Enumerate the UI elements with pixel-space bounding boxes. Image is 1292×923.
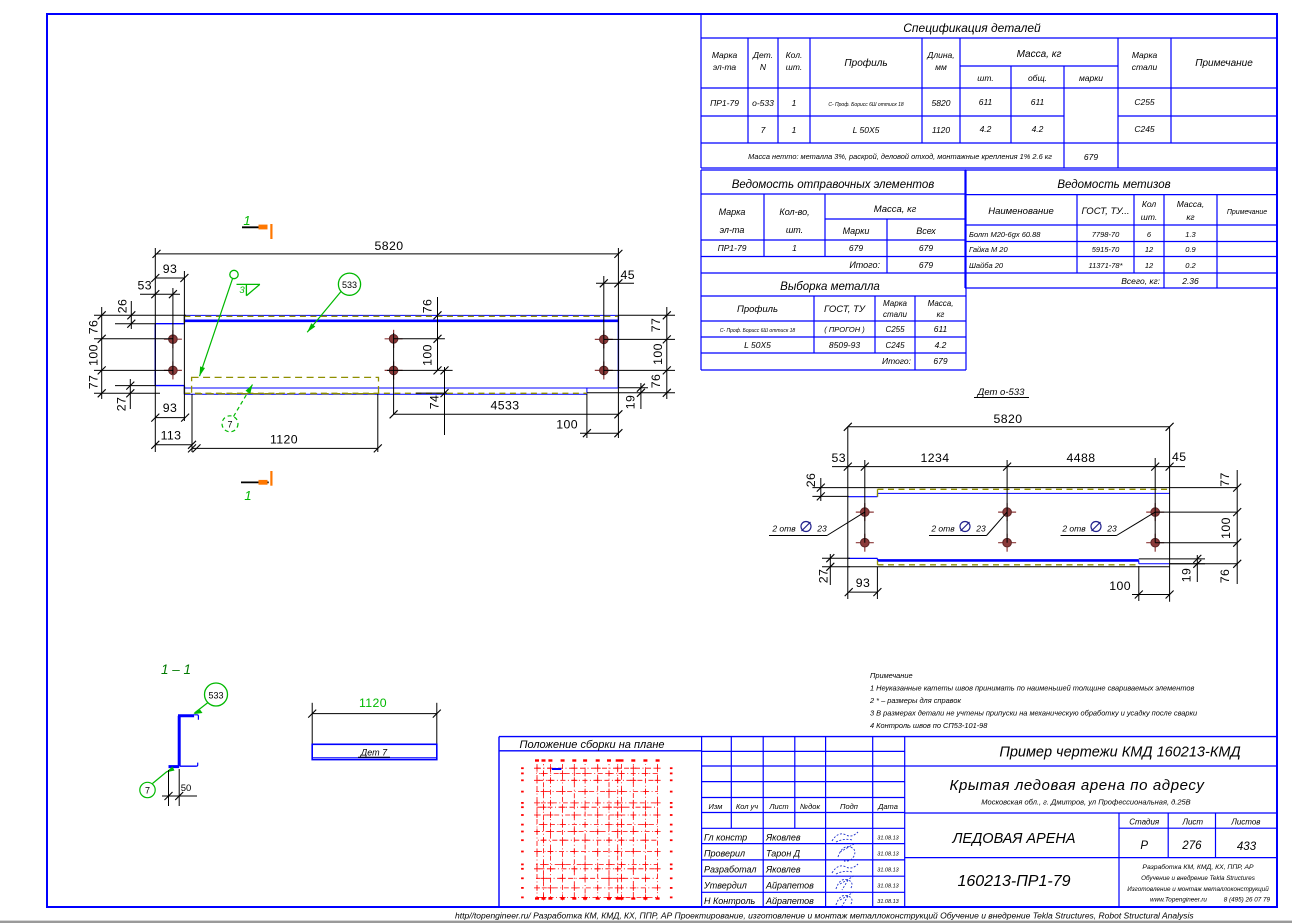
dim 100 (bottom-right): [580, 432, 618, 434]
svg-text:12: 12: [1145, 261, 1154, 270]
dim 74: [441, 366, 449, 374]
svg-text:27: 27: [114, 397, 128, 411]
svg-text:611: 611: [1031, 97, 1045, 107]
svg-text:марки: марки: [1079, 73, 1103, 83]
dashed olive rectangle: position of Дет 7: [192, 377, 379, 393]
svg-text:шт.: шт.: [786, 62, 802, 72]
svg-text:1: 1: [244, 488, 251, 503]
svg-text:23: 23: [816, 524, 827, 534]
weld mark section (green): [166, 767, 175, 773]
svg-text:2 отв: 2 отв: [930, 524, 955, 534]
title block right: borders: [905, 766, 1277, 907]
svg-text:кг: кг: [1186, 212, 1194, 222]
signatures (blue scribbles): [832, 832, 858, 906]
svg-text:1120: 1120: [932, 125, 951, 135]
svg-text:31.08.13: 31.08.13: [877, 884, 899, 890]
svg-text:611: 611: [979, 97, 993, 107]
svg-text:Кол уч: Кол уч: [736, 802, 758, 811]
svg-text:1: 1: [792, 125, 797, 135]
dim 27 (left): [126, 382, 134, 390]
dim 93 (top-left): [155, 277, 184, 279]
svg-text:Стадия: Стадия: [1129, 818, 1160, 827]
svg-text:11371-78*: 11371-78*: [1088, 261, 1123, 270]
svg-text:4 Контроль швов по СП53-101-9: 4 Контроль швов по СП53-101-98: [870, 721, 988, 730]
svg-text:Ведомость метизов: Ведомость метизов: [1057, 179, 1170, 191]
blue mark on plan: [552, 768, 562, 770]
svg-text:ПР1-79: ПР1-79: [718, 243, 747, 253]
det dim 5820: [848, 426, 1170, 428]
svg-text:Дата: Дата: [877, 802, 898, 811]
svg-text:ЛЕДОВАЯ АРЕНА: ЛЕДОВАЯ АРЕНА: [951, 831, 1075, 847]
svg-text:113: 113: [161, 429, 182, 443]
svg-text:С245: С245: [885, 341, 905, 350]
svg-text:76: 76: [1218, 569, 1232, 583]
svg-text:7: 7: [761, 125, 766, 135]
svg-text:Наименование: Наименование: [988, 206, 1054, 217]
svg-text:1.3: 1.3: [1185, 230, 1196, 239]
dim 45 (top-right): [596, 282, 634, 284]
svg-text:L 50X5: L 50X5: [853, 125, 880, 135]
svg-text:7: 7: [145, 786, 150, 796]
svg-text:Обучение и внедрение Tekla St: Обучение и внедрение Tekla Structures: [1141, 874, 1256, 882]
svg-text:Пример чертежи КМД 160213-КМД: Пример чертежи КМД 160213-КМД: [999, 745, 1240, 761]
svg-text:2 отв: 2 отв: [771, 524, 796, 534]
svg-text:Гл констр: Гл констр: [704, 833, 747, 843]
svg-text:7798-70: 7798-70: [1092, 230, 1120, 239]
svg-text:76: 76: [649, 374, 663, 388]
svg-text:31.08.13: 31.08.13: [877, 868, 899, 874]
table: Спецификация деталей: [701, 14, 1277, 168]
svg-text:1 Неуказанные катеты швов при: 1 Неуказанные катеты швов принимать по н…: [870, 684, 1194, 693]
svg-text:№док: №док: [800, 802, 820, 811]
section mark 1 (bottom): [241, 481, 269, 483]
svg-text:31.08.13: 31.08.13: [877, 899, 899, 905]
svg-text:Московская обл., г. Дмитров, у: Московская обл., г. Дмитров, ул Професси…: [981, 798, 1190, 807]
svg-text:Кол.: Кол.: [786, 50, 803, 60]
svg-text:ГОСТ, ТУ...: ГОСТ, ТУ...: [1081, 206, 1129, 217]
svg-text:Масса,: Масса,: [1177, 199, 1205, 209]
svg-text:Марка: Марка: [712, 50, 738, 60]
svg-text:Профиль: Профиль: [844, 57, 887, 69]
svg-text:www.Topengineer.ru: www.Topengineer.ru: [1150, 897, 1207, 904]
svg-text:1: 1: [243, 213, 250, 228]
svg-text:общ.: общ.: [1028, 73, 1047, 83]
svg-text:Р: Р: [1140, 840, 1148, 852]
det o-533 olive dashes: [878, 488, 1170, 490]
svg-text:Изготовление и монтаж металлок: Изготовление и монтаж металлоконструкций: [1127, 885, 1269, 893]
svg-text:Положение сборки на плане: Положение сборки на плане: [519, 739, 664, 751]
svg-text:Масса, кг: Масса, кг: [1017, 49, 1062, 60]
svg-text:2 отв: 2 отв: [1061, 524, 1086, 534]
svg-text:Крытая ледовая арена по адресу: Крытая ледовая арена по адресу: [950, 777, 1206, 794]
left chain dims 76/100/77: [98, 311, 106, 319]
svg-text:С245: С245: [1134, 124, 1155, 134]
svg-text:276: 276: [1181, 840, 1202, 852]
svg-text:93: 93: [163, 401, 177, 415]
det right chain 77/100/76: [1233, 484, 1241, 492]
svg-text:С255: С255: [885, 325, 905, 334]
svg-text:4.2: 4.2: [1032, 124, 1044, 134]
beam ПР1-79 plan view: blue outline: [155, 315, 618, 394]
svg-text:Примечание: Примечание: [1227, 209, 1267, 216]
svg-text:( ПРОГОН ): ( ПРОГОН ): [824, 325, 865, 334]
svg-text:23: 23: [1106, 524, 1117, 534]
dim 93 (bottom-left): [155, 417, 185, 419]
svg-text:23: 23: [975, 524, 986, 534]
svg-text:Листов: Листов: [1230, 818, 1260, 827]
svg-text:2 * – размеры для справок: 2 * – размеры для справок: [869, 696, 961, 705]
svg-text:о-533: о-533: [752, 98, 774, 108]
balloon 533 (section): [205, 683, 228, 706]
svg-text:Разработка КМ, КМД, КХ, ППР, А: Разработка КМ, КМД, КХ, ППР, АР: [1142, 863, 1254, 871]
svg-text:4488: 4488: [1067, 451, 1096, 465]
svg-text:Примечание: Примечание: [870, 671, 913, 680]
dim 26 (left): [127, 311, 135, 319]
svg-text:Лист: Лист: [768, 802, 788, 811]
dim 19 (right): [637, 384, 645, 392]
svg-text:Яковлев: Яковлев: [765, 865, 801, 875]
svg-text:76: 76: [87, 320, 101, 334]
svg-text:С- Проф. Борисс 6Ш оттиск 18: С- Проф. Борисс 6Ш оттиск 18: [720, 328, 795, 334]
svg-text:8509-93: 8509-93: [829, 340, 860, 350]
svg-text:С- Проф. Борисс 6Ш оттиск 18: С- Проф. Борисс 6Ш оттиск 18: [828, 102, 903, 108]
svg-text:Марка: Марка: [719, 207, 746, 217]
svg-text:С255: С255: [1134, 97, 1155, 107]
svg-text:1 – 1: 1 – 1: [161, 662, 191, 677]
svg-text:26: 26: [804, 473, 818, 487]
svg-text:679: 679: [1084, 152, 1098, 162]
svg-text:Длина,: Длина,: [926, 50, 954, 60]
det dim 26 (top-left): [820, 478, 822, 501]
svg-text:93: 93: [856, 576, 870, 590]
svg-text:7: 7: [227, 420, 232, 430]
svg-text:53: 53: [832, 451, 846, 465]
weld symbol 3 with flag: [230, 270, 238, 278]
svg-text:Шайба 20: Шайба 20: [969, 261, 1004, 270]
det dims 53/1234/4488/45: [832, 466, 1185, 468]
main drawing black extension lines: [94, 248, 675, 452]
svg-text:31.08.13: 31.08.13: [877, 852, 899, 858]
title block signature table: [702, 737, 905, 907]
svg-text:Дет.: Дет.: [752, 50, 773, 60]
svg-text:45: 45: [1172, 450, 1186, 464]
svg-text:Марка: Марка: [883, 299, 907, 308]
svg-text:http//topengineer.ru/ Разрабо: http//topengineer.ru/ Разработка КМ, КМД…: [455, 911, 1194, 921]
det dim 100: [1132, 594, 1170, 596]
svg-text:кг: кг: [937, 310, 945, 319]
svg-text:0.9: 0.9: [1185, 245, 1196, 254]
svg-text:1234: 1234: [921, 451, 950, 465]
svg-text:Ведомость отправочных элементо: Ведомость отправочных элементов: [732, 179, 935, 191]
svg-text:Гайка М 20: Гайка М 20: [969, 245, 1008, 254]
dim 1120: [192, 447, 378, 449]
red grid lines: [536, 764, 658, 899]
svg-text:Примечание: Примечание: [1195, 58, 1253, 69]
svg-text:160213-ПР1-79: 160213-ПР1-79: [957, 873, 1070, 890]
svg-text:53: 53: [138, 279, 152, 293]
svg-text:50: 50: [181, 783, 192, 794]
svg-text:93: 93: [163, 262, 177, 276]
det o-533 outline (black): [848, 488, 1170, 567]
svg-text:611: 611: [934, 324, 948, 334]
svg-text:эл-та: эл-та: [713, 62, 737, 72]
svg-text:679: 679: [919, 243, 933, 253]
table: Ведомость отправочных элементов: [701, 170, 966, 370]
svg-text:26: 26: [116, 299, 130, 313]
svg-text:77: 77: [649, 318, 663, 332]
svg-text:эл-та: эл-та: [720, 225, 745, 235]
svg-text:Утвердил: Утвердил: [703, 881, 747, 891]
svg-text:19: 19: [624, 395, 638, 409]
svg-text:Дет 7: Дет 7: [360, 748, 388, 758]
svg-text:45: 45: [621, 268, 635, 282]
svg-text:5820: 5820: [994, 412, 1023, 426]
svg-text:Проверил: Проверил: [704, 849, 745, 859]
notes Примечание: [869, 671, 1197, 730]
leader 7 section: [153, 772, 168, 784]
svg-text:100: 100: [556, 418, 578, 432]
svg-text:679: 679: [919, 260, 933, 270]
svg-text:Всех: Всех: [916, 226, 936, 236]
svg-text:Марки: Марки: [843, 226, 870, 236]
svg-text:N: N: [760, 62, 767, 72]
dim 53: [140, 293, 180, 295]
svg-text:74: 74: [428, 395, 442, 409]
svg-text:Тарон Д: Тарон Д: [766, 849, 801, 859]
svg-text:5915-70: 5915-70: [1092, 245, 1120, 254]
bolt holes (6) on beam: [164, 330, 182, 348]
svg-text:76: 76: [421, 299, 435, 313]
svg-text:19: 19: [1179, 568, 1193, 582]
svg-text:5820: 5820: [932, 98, 951, 108]
svg-text:1120: 1120: [359, 696, 387, 710]
dim 4533: [394, 413, 619, 415]
right chain dims 77/100/76: [663, 311, 671, 319]
svg-text:Лист: Лист: [1181, 818, 1203, 827]
svg-text:533: 533: [208, 691, 223, 701]
svg-text:31.08.13: 31.08.13: [877, 836, 899, 842]
svg-text:Спецификация деталей: Спецификация деталей: [903, 21, 1041, 35]
weld leader arrow: [200, 278, 233, 376]
det dim 19: [1193, 555, 1201, 563]
svg-text:8 (495) 26 07 79: 8 (495) 26 07 79: [1224, 897, 1271, 904]
table: Выборка металла: [701, 273, 966, 370]
svg-text:ГОСТ, ТУ: ГОСТ, ТУ: [824, 304, 866, 315]
svg-text:Итого:: Итого:: [882, 356, 912, 366]
svg-text:Айрапетов: Айрапетов: [765, 896, 814, 906]
svg-text:Итого:: Итого:: [849, 260, 880, 270]
svg-text:Профиль: Профиль: [737, 304, 778, 315]
section 1-1 C-profile: [169, 715, 199, 767]
svg-text:шт.: шт.: [786, 225, 803, 235]
svg-text:5820: 5820: [375, 239, 404, 253]
svg-text:100: 100: [1109, 579, 1131, 593]
svg-text:Болт М20-6gх 60.88: Болт М20-6gх 60.88: [969, 230, 1041, 239]
svg-text:Кол: Кол: [1142, 199, 1157, 209]
svg-text:Яковлев: Яковлев: [765, 833, 801, 843]
svg-text:мм: мм: [935, 62, 947, 72]
svg-text:Выборка металла: Выборка металла: [780, 281, 880, 293]
balloon 7 (dashed): [222, 416, 238, 432]
svg-text:0.2: 0.2: [1185, 261, 1196, 270]
svg-text:3 В размерах детали не учтены: 3 В размерах детали не учтены припуски н…: [870, 709, 1197, 718]
svg-text:Всего, кг:: Всего, кг:: [1121, 276, 1160, 286]
svg-text:100: 100: [421, 344, 435, 366]
svg-text:77: 77: [87, 375, 101, 389]
det 7 plate (blue): [312, 744, 437, 759]
svg-text:679: 679: [849, 243, 863, 253]
svg-text:Масса, кг: Масса, кг: [874, 204, 917, 215]
svg-text:1: 1: [792, 98, 797, 108]
svg-text:4533: 4533: [491, 398, 520, 412]
dim 5820 (top): [157, 253, 619, 255]
leader 533: [307, 292, 341, 333]
det o-533 blue lines: [848, 493, 1170, 563]
svg-text:100: 100: [1219, 517, 1233, 539]
svg-text:12: 12: [1145, 245, 1154, 254]
svg-text:стали: стали: [1132, 62, 1158, 72]
det o-533 extension lines: [822, 427, 1237, 602]
svg-text:Айрапетов: Айрапетов: [765, 881, 814, 891]
beam dashed olive profile-edge lines: [184, 315, 618, 317]
balloon 533 (main view): [338, 273, 360, 295]
svg-text:679: 679: [933, 356, 947, 366]
svg-text:100: 100: [651, 343, 665, 365]
svg-text:Изм: Изм: [709, 802, 723, 811]
svg-text:100: 100: [87, 344, 101, 366]
leader 533 section: [195, 703, 209, 714]
svg-text:27: 27: [816, 569, 830, 583]
svg-text:Разработал: Разработал: [704, 865, 756, 875]
svg-text:Масса,: Масса,: [928, 299, 954, 308]
dim 76 (mid): [434, 311, 442, 319]
svg-text:3: 3: [239, 285, 245, 296]
svg-text:Подп: Подп: [840, 802, 858, 811]
svg-text:433: 433: [1237, 841, 1257, 853]
det o-533 bolts (6): [856, 503, 874, 521]
svg-text:шт.: шт.: [1141, 212, 1157, 222]
svg-text:1: 1: [792, 243, 797, 253]
det dim 27: [826, 554, 834, 562]
det 7 drawing: [312, 703, 437, 744]
dim 113: [155, 444, 192, 446]
svg-text:шт.: шт.: [977, 73, 993, 83]
leader 7 (dashed): [234, 385, 253, 417]
svg-text:Н Контроль: Н Контроль: [704, 896, 756, 906]
section mark 1 (top): [242, 226, 267, 228]
svg-text:533: 533: [342, 280, 357, 290]
svg-text:1120: 1120: [270, 433, 298, 447]
dim 50 (section): [162, 769, 197, 806]
bottom gray strip: [0, 921, 1292, 923]
svg-text:Дет о-533: Дет о-533: [977, 387, 1025, 398]
svg-text:ПР1-79: ПР1-79: [710, 98, 739, 108]
table: Ведомость метизов: [965, 170, 1277, 288]
svg-text:4.2: 4.2: [980, 124, 992, 134]
balloon 7 (section): [140, 782, 155, 797]
svg-text:2.36: 2.36: [1181, 276, 1199, 286]
svg-text:Кол-во,: Кол-во,: [779, 207, 809, 217]
svg-text:4.2: 4.2: [935, 340, 947, 350]
svg-text:L 50X5: L 50X5: [744, 340, 771, 350]
svg-text:Марка: Марка: [1132, 50, 1158, 60]
det dim 93: [849, 591, 878, 593]
svg-text:Масса нетто: металла 3%, раскр: Масса нетто: металла 3%, раскрой, делово…: [748, 152, 1052, 161]
title block outer lines: [499, 737, 1277, 907]
svg-text:77: 77: [1218, 472, 1232, 486]
svg-text:стали: стали: [883, 310, 907, 319]
